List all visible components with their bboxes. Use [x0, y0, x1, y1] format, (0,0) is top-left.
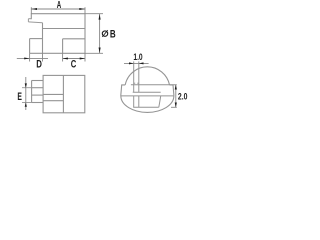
foot top y=38.6 [30, 38, 43, 40]
inner horizontal y=28.5 [43, 28, 86, 30]
lower tab bottom [32, 102, 43, 104]
part outline: top edge [31, 13, 85, 15]
part outline: right edge [84, 14, 86, 54]
dim 1.0 arrow left [129, 62, 134, 64]
slot left line upper [133, 61, 135, 92]
dim D arrow [24, 57, 29, 59]
small left tab top [28, 18, 31, 20]
svg-text:D: D [36, 59, 42, 70]
notch left vertical x=62.6 [62, 39, 64, 54]
svg-text:E: E [17, 90, 22, 102]
circle view: bottom ellipse arc [121, 96, 174, 113]
dim B arrow bottom [99, 48, 101, 54]
dim C extension right [84, 53, 86, 61]
small left tab left edge [27, 19, 29, 22]
label ∅B [102, 31, 107, 36]
dim 2.0 ext bottom stub [171, 106, 177, 108]
dim E line [25, 77, 27, 110]
dim 2.0 arrow top [175, 85, 177, 90]
upper tab bottom [32, 87, 43, 89]
dim B extension top [85, 13, 103, 15]
dim 2.0 line [175, 85, 177, 108]
dim D extension right [42, 53, 44, 61]
tabs left edge [31, 81, 33, 103]
dim C arrow right [80, 58, 85, 60]
dim C arrow left [63, 58, 68, 60]
dim B arrow top [99, 14, 101, 20]
svg-text:2.0: 2.0 [178, 91, 188, 101]
dim 2.0 arrow bottom [175, 103, 177, 108]
chord 1 (y=84.7) with 2.0 top extension [131, 84, 177, 86]
dim A arrow left [31, 8, 37, 10]
lower view: internal vertical [62, 75, 64, 112]
dim D line [17, 57, 48, 59]
slot tick upper right [137, 82, 139, 84]
slot left line lower [133, 96, 135, 107]
lower view: body rectangle [43, 75, 85, 112]
dim E arrow down [25, 83, 27, 87]
lower view: internal horizontal 2 [43, 100, 63, 102]
svg-text:1.0: 1.0 [133, 52, 143, 62]
svg-text:A: A [57, 0, 61, 10]
svg-text:C: C [71, 58, 77, 69]
upper tab top [32, 80, 43, 82]
dim E arrow up [25, 103, 27, 107]
dim A arrow right [79, 8, 85, 10]
part outline: left upper vertical [30, 13, 32, 19]
dim C extension left [62, 53, 64, 61]
lower tab top [32, 94, 43, 96]
svg-text:B: B [110, 27, 116, 39]
chord 3 (y=95.9) [121, 95, 174, 97]
dim 1.0 line [124, 62, 149, 64]
slot right line lower [138, 96, 140, 107]
dim B line [99, 14, 101, 54]
foot left edge [29, 39, 31, 54]
chord 2 (y=92.2) [133, 91, 161, 93]
part outline: bottom edge [30, 52, 85, 54]
dim E ext upper [22, 87, 32, 89]
slot right line upper [138, 61, 140, 92]
diagonal hook edge [28, 21, 42, 24]
dim E ext lower [22, 102, 32, 104]
circle view: right ear [170, 85, 174, 96]
dim C line [63, 58, 85, 60]
dim A extension left [30, 7, 32, 14]
dim A extension right [84, 7, 86, 14]
dim D extension left [29, 53, 31, 61]
inner vertical x=42.5 [42, 23, 44, 54]
slot tick upper left [134, 82, 136, 84]
dim A line [31, 8, 85, 10]
inner steep arc right [159, 96, 161, 107]
notch top right y=38.8 [63, 38, 85, 40]
circle view: main circle top arc [125, 67, 169, 85]
dim B extension bottom [85, 52, 103, 54]
circle view: left ear [121, 85, 125, 96]
inner bottom line y=107.25 [133, 106, 159, 108]
dim 1.0 arrow right [139, 62, 144, 64]
lower view: internal horizontal 1 [43, 93, 63, 95]
